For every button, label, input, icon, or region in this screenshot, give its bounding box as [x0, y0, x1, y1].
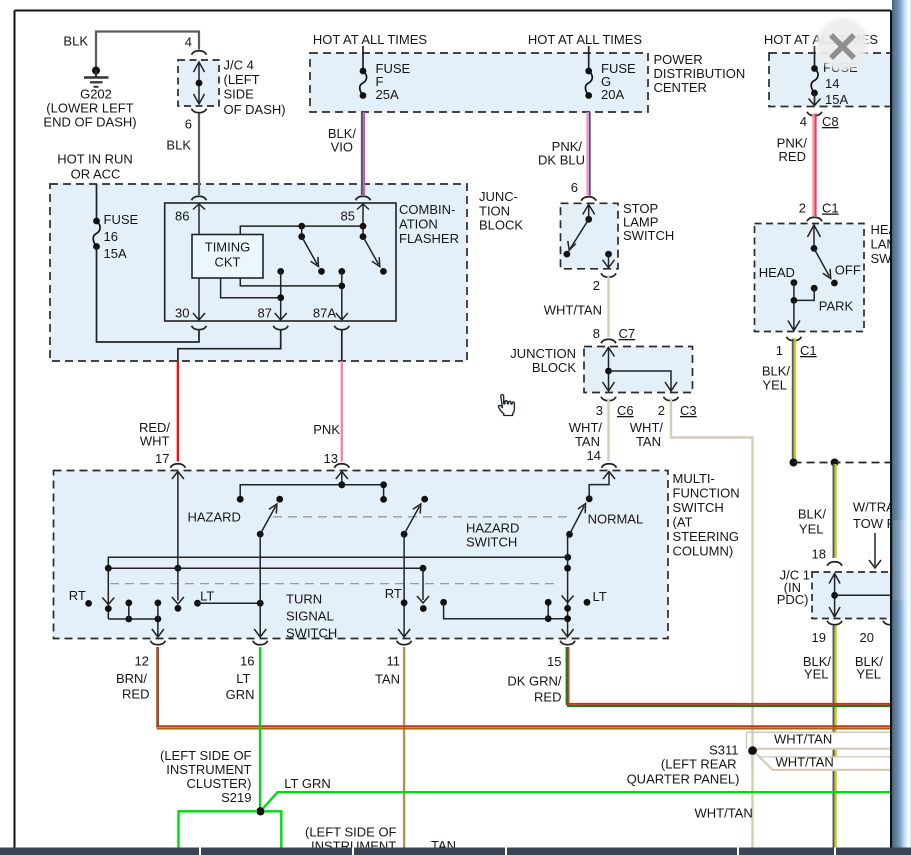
connector arc junction block pin 3 C6	[601, 397, 616, 401]
svg-text:(LEFT REAR: (LEFT REAR	[661, 757, 737, 772]
wire from HOT IN RUN feed to fuse 16	[96, 184, 98, 221]
flasher pin 86 wire and arrow	[193, 204, 205, 210]
connector arc J/C4 pin 4	[192, 51, 207, 55]
wire LT GRN S219 right branch	[264, 811, 281, 847]
svg-text:GRN: GRN	[226, 687, 255, 702]
svg-text:OF DASH): OF DASH)	[224, 102, 286, 117]
svg-text:18: 18	[812, 547, 826, 562]
connector arc below pin 87A	[334, 326, 349, 330]
wire BLK J/C4 to flasher pin 86	[198, 114, 200, 196]
headlamp switch PARK contact	[811, 285, 818, 292]
contact dot LT right	[584, 599, 591, 606]
flasher pin 85 wire and arrow	[357, 204, 369, 210]
svg-text:CLUSTER): CLUSTER)	[186, 776, 251, 791]
svg-text:TAN: TAN	[575, 434, 600, 449]
fuse F 25A	[360, 68, 367, 75]
svg-text:MULTI-: MULTI-	[673, 471, 715, 486]
normal contact	[566, 531, 573, 538]
svg-text:4: 4	[185, 35, 192, 50]
svg-text:BLOCK: BLOCK	[479, 218, 523, 233]
svg-text:J/C 4: J/C 4	[224, 58, 254, 73]
wire pin 87A to PNK	[341, 331, 343, 362]
timing ckt output wire to 87A	[240, 278, 341, 286]
right turn-signal bottom wire	[440, 599, 447, 606]
svg-text:OFF: OFF	[835, 263, 861, 278]
svg-text:C8: C8	[822, 114, 839, 129]
svg-text:HAZARD: HAZARD	[466, 521, 519, 536]
svg-text:JUNCTION: JUNCTION	[510, 346, 576, 361]
connector arc below pin 87	[273, 326, 288, 330]
wire BLK/YEL headlamp switch to node	[792, 339, 794, 462]
left turn-signal bottom wire	[108, 619, 158, 637]
connector arc MFS pin 12	[150, 641, 165, 645]
ground G202	[92, 67, 100, 75]
hazard feed wire	[240, 485, 383, 500]
splice S311	[748, 747, 756, 755]
node on top wire at left contact	[298, 223, 305, 230]
svg-text:30: 30	[175, 306, 189, 321]
flasher pin 87A wire and arrow	[338, 268, 345, 275]
svg-text:2: 2	[799, 201, 806, 216]
svg-text:13: 13	[324, 451, 338, 466]
headlamp switch input arrow	[808, 225, 821, 237]
wire PNK/DK BLU fuse G to stop lamp switch	[586, 112, 588, 196]
svg-text:TIMING: TIMING	[205, 240, 251, 255]
stop lamp switch dashed box	[561, 203, 619, 268]
svg-text:WHT/: WHT/	[569, 420, 603, 435]
svg-text:C7: C7	[619, 326, 636, 341]
left turn-signal column	[107, 568, 109, 619]
svg-text:NORMAL: NORMAL	[588, 512, 644, 527]
wire PNK flasher 87A to MFS pin 13	[341, 361, 343, 462]
bottom bar	[0, 848, 911, 855]
wire pin 87 to RED/WHT	[178, 331, 281, 362]
headlamp switch OFF contact	[814, 248, 829, 276]
wire WHT/TAN C6 to multi-function switch pin 14	[607, 399, 609, 462]
svg-text:2: 2	[658, 403, 665, 418]
svg-text:CKT: CKT	[215, 255, 241, 270]
wire LT GRN pin 16 to S219	[259, 647, 261, 808]
headlamp switch dashed box	[755, 224, 865, 332]
svg-text:86: 86	[175, 209, 189, 224]
svg-text:STEERING: STEERING	[673, 529, 739, 544]
mouse cursor	[498, 395, 514, 416]
wire BLK/YEL node to J/C1 pin 18	[833, 464, 835, 558]
connector arc below J/C4 (pin 6)	[192, 109, 207, 113]
svg-text:LT: LT	[236, 671, 250, 686]
J/C1 internal wire	[829, 574, 840, 584]
dashed wire to trailer tow package	[794, 462, 892, 464]
svg-text:TAN: TAN	[375, 672, 400, 687]
svg-text:END OF DASH): END OF DASH)	[43, 115, 136, 130]
junction block internal wire	[603, 348, 615, 357]
connector arc MFS pin 13	[334, 464, 349, 468]
svg-text:SWITCH: SWITCH	[623, 228, 674, 243]
node left bottom 1	[125, 616, 132, 623]
wire B drop column	[422, 568, 424, 600]
fuse G 20A	[585, 68, 592, 75]
wire WHT/TAN stop lamp to junction block	[607, 275, 609, 337]
wire normal to MFS pin 14	[589, 473, 609, 499]
svg-text:YEL: YEL	[856, 667, 881, 682]
svg-text:YEL: YEL	[804, 667, 829, 682]
contact dot RT left	[85, 600, 92, 607]
svg-text:TAN: TAN	[636, 434, 661, 449]
svg-text:WHT/TAN: WHT/TAN	[544, 303, 602, 318]
svg-text:15: 15	[547, 654, 561, 669]
wire BLK/VIO fuse F to flasher pin 85	[361, 112, 363, 195]
turn signal RT contact (right)	[401, 531, 408, 538]
svg-text:2: 2	[593, 278, 600, 293]
svg-text:S219: S219	[221, 790, 251, 805]
svg-text:RED: RED	[534, 690, 561, 705]
svg-text:6: 6	[185, 117, 192, 132]
svg-text:15A: 15A	[104, 246, 127, 261]
connector arc flasher pin 86	[192, 196, 207, 200]
wire BRN/RED pin 12	[156, 647, 159, 727]
fuse 14 output arrow	[814, 93, 816, 106]
svg-text:WHT/TAN: WHT/TAN	[695, 806, 753, 821]
timing circuit box	[192, 235, 263, 279]
stop lamp switch output	[605, 251, 612, 258]
node hazard feed right bottom	[380, 496, 387, 503]
node hazard feed right top	[380, 481, 387, 488]
wire LT to pin16 column	[194, 600, 201, 607]
svg-text:14: 14	[825, 76, 839, 91]
svg-text:C1: C1	[822, 201, 839, 216]
svg-text:S311: S311	[709, 743, 738, 758]
svg-text:BLOCK: BLOCK	[532, 360, 576, 375]
connector arc fuse 14 pin 4 C8	[807, 112, 822, 116]
connector arc flasher pin 85	[356, 196, 371, 200]
svg-text:LT: LT	[200, 589, 214, 604]
connector arc J/C1 pin 19	[827, 621, 842, 625]
svg-text:BLK: BLK	[166, 138, 191, 153]
wire WHT/TAN S311 branch 2 flag	[761, 757, 892, 770]
svg-text:8: 8	[593, 326, 600, 341]
svg-text:25A: 25A	[376, 87, 399, 102]
svg-text:RED: RED	[779, 149, 806, 164]
connector arc stop lamp switch pin 2	[601, 273, 616, 277]
MFS pin 13 input wire	[336, 472, 348, 480]
svg-text:DK GRN/: DK GRN/	[507, 674, 562, 689]
svg-text:HAZARD: HAZARD	[188, 510, 241, 525]
svg-text:TURN: TURN	[286, 591, 322, 606]
svg-text:FLASHER: FLASHER	[399, 231, 459, 246]
connector arc MFS pin 15	[560, 641, 575, 645]
flasher pin 87 wire and arrow	[277, 268, 284, 275]
connector arc J/C1 pin 20	[883, 621, 898, 625]
connector arc MFS pin 16	[253, 641, 268, 645]
svg-text:87A: 87A	[313, 306, 336, 321]
svg-text:(LEFT SIDE OF: (LEFT SIDE OF	[305, 825, 397, 840]
svg-text:4: 4	[800, 114, 807, 129]
svg-text:G202: G202	[80, 87, 112, 102]
arrow to J/C1 (trailer tow)	[874, 533, 876, 566]
connector arc stop lamp switch pin 6	[581, 197, 596, 201]
svg-text:ATION: ATION	[399, 217, 438, 232]
svg-text:15A: 15A	[825, 92, 848, 107]
svg-text:WHT/TAN: WHT/TAN	[774, 732, 832, 747]
MFS internal bus wire B	[108, 567, 423, 569]
svg-text:POWER: POWER	[654, 52, 703, 67]
wire BLK from G202 to J/C4	[96, 32, 199, 69]
svg-text:RT: RT	[69, 588, 86, 603]
wire LT GRN S219 to right	[263, 792, 891, 808]
wire TAN pin 11 down	[403, 647, 405, 848]
wire LT GRN S219 left branch	[179, 811, 258, 847]
svg-text:RT: RT	[385, 586, 402, 601]
stop lamp switch contact	[570, 219, 588, 248]
wire DK GRN/RED pin 15	[566, 647, 569, 705]
svg-text:16: 16	[104, 229, 118, 244]
flasher left contact	[301, 226, 303, 237]
close button	[814, 16, 872, 74]
connector arc below pin 30	[192, 326, 207, 330]
svg-text:FUNCTION: FUNCTION	[673, 486, 740, 501]
svg-text:SWITCH: SWITCH	[286, 625, 337, 640]
node left bottom 2	[155, 616, 162, 623]
svg-text:PNK: PNK	[313, 422, 340, 437]
svg-text:WHT/: WHT/	[630, 420, 664, 435]
svg-text:COLUMN): COLUMN)	[673, 544, 734, 559]
svg-text:DISTRIBUTION: DISTRIBUTION	[654, 66, 746, 81]
junction block (left, combination flasher housing) dashed box	[50, 184, 467, 361]
stop lamp switch input arrow	[583, 205, 595, 215]
svg-text:RED: RED	[122, 687, 149, 702]
svg-text:12: 12	[135, 654, 149, 669]
MFS pin 11 column	[403, 534, 405, 637]
svg-text:(LOWER LEFT: (LOWER LEFT	[46, 101, 133, 116]
svg-text:14: 14	[587, 448, 601, 463]
svg-text:1: 1	[776, 343, 783, 358]
svg-text:C6: C6	[617, 403, 634, 418]
MFS pin 17 input wire	[172, 472, 184, 480]
connector arc junction block pin 8 C7	[601, 339, 616, 343]
svg-text:SIGNAL: SIGNAL	[286, 608, 334, 623]
multi-function switch dashed box	[54, 471, 669, 639]
J/C 4 internal wire with arrows and splice dot	[198, 63, 200, 103]
junction block (middle) dashed box	[584, 347, 693, 393]
wire fuse16 to flasher pin 30	[97, 247, 200, 343]
svg-text:PARK: PARK	[819, 299, 854, 314]
connector arc MFS pin 17	[170, 464, 185, 468]
svg-text:DK BLU: DK BLU	[538, 153, 585, 168]
svg-text:YEL: YEL	[799, 522, 824, 537]
connector arc headlamp switch pin 1 C1	[786, 337, 801, 341]
wire WHT/TAN through S311	[751, 730, 753, 772]
wire stub into fuse F	[362, 46, 364, 71]
connector arc headlamp switch pin 2 C1	[807, 217, 822, 221]
svg-text:YEL: YEL	[762, 378, 787, 393]
combination flasher inner solid box	[165, 203, 396, 321]
svg-text:HOT AT ALL TIMES: HOT AT ALL TIMES	[528, 32, 642, 47]
wire PNK/RED fuse 14 to headlamp switch	[812, 114, 814, 217]
headlamp switch HEAD contact	[791, 279, 798, 286]
svg-text:BRN/: BRN/	[116, 671, 147, 686]
wire WHT/TAN C3 to splice S311	[671, 399, 753, 751]
svg-text:3: 3	[596, 403, 603, 418]
svg-text:(LEFT SIDE OF: (LEFT SIDE OF	[160, 748, 252, 763]
svg-text:BLK: BLK	[63, 34, 88, 49]
MFS pin 16 column	[259, 534, 261, 637]
node hazard feed pin13	[338, 481, 345, 488]
wire WHT/TAN S311 down	[751, 751, 753, 848]
svg-text:LT: LT	[593, 589, 607, 604]
wire stub into fuse 14	[814, 46, 816, 69]
svg-text:85: 85	[341, 209, 355, 224]
svg-text:20A: 20A	[601, 87, 624, 102]
connector arc MFS pin 14	[602, 464, 617, 468]
fuse 14 15A	[811, 65, 818, 72]
svg-text:INSTRUMENT: INSTRUMENT	[166, 762, 251, 777]
svg-text:BLK/: BLK/	[762, 364, 791, 379]
right scrollbar band	[892, 0, 911, 855]
svg-text:6: 6	[571, 180, 578, 195]
svg-text:FUSE: FUSE	[104, 212, 139, 227]
MFS pin 15 column	[567, 534, 569, 637]
wire BLK/YEL J/C1 pin 19 down	[833, 626, 835, 848]
svg-text:19: 19	[812, 630, 826, 645]
fuse 16 15A	[93, 218, 100, 225]
svg-text:TION: TION	[479, 204, 510, 219]
power distribution center dashed box (fuses F and G)	[310, 53, 648, 112]
node right bottom 1	[545, 615, 552, 622]
power distribution center dashed box (fuse 14)	[769, 53, 895, 107]
flasher right contact	[360, 233, 367, 240]
svg-text:SWITCH: SWITCH	[466, 535, 517, 550]
wire stub into fuse G	[588, 46, 590, 71]
svg-text:HOT AT ALL TIMES: HOT AT ALL TIMES	[313, 32, 427, 47]
MFS internal bus wire A	[108, 557, 568, 568]
svg-text:BLK/: BLK/	[798, 507, 827, 522]
svg-text:QUARTER PANEL): QUARTER PANEL)	[627, 772, 740, 787]
svg-text:87: 87	[258, 306, 272, 321]
node splice on dashed branch	[790, 459, 798, 467]
svg-text:17: 17	[155, 451, 169, 466]
node pin85 top wire junction	[360, 223, 367, 230]
svg-text:(LEFT: (LEFT	[224, 72, 260, 87]
svg-text:CENTER: CENTER	[654, 80, 707, 95]
svg-text:(AT: (AT	[673, 515, 693, 530]
svg-text:HOT IN RUN: HOT IN RUN	[57, 152, 133, 167]
J/C 1 dashed box	[812, 572, 895, 619]
timing ckt output wire to 87	[221, 278, 281, 298]
svg-text:COMBIN-: COMBIN-	[399, 202, 455, 217]
svg-text:11: 11	[387, 654, 401, 669]
hazard switch contact	[257, 531, 264, 538]
page frame border	[15, 10, 892, 12]
MFS internal dashed linkage lower	[110, 583, 556, 585]
connector arc MFS pin 11	[397, 641, 412, 645]
svg-text:C1: C1	[800, 343, 817, 358]
svg-text:20: 20	[860, 630, 874, 645]
svg-text:PDC): PDC)	[777, 592, 809, 607]
svg-text:WHT: WHT	[140, 434, 170, 449]
headlamp switch output	[791, 297, 798, 304]
connector arc J/C1 pin 18	[827, 562, 842, 566]
svg-text:OR ACC: OR ACC	[71, 167, 121, 182]
svg-text:LT GRN: LT GRN	[284, 776, 330, 791]
wire WHT/TAN S311 branch 1 flag	[747, 732, 892, 748]
connector arc junction block pin 2 C3	[664, 397, 679, 401]
svg-text:VIO: VIO	[331, 140, 353, 155]
svg-text:HEAD: HEAD	[759, 265, 795, 280]
MFS internal dashed linkage upper	[273, 516, 568, 518]
svg-text:SIDE: SIDE	[224, 87, 255, 102]
flasher pin 30 wire and arrow	[198, 278, 200, 320]
svg-text:SWITCH: SWITCH	[673, 500, 724, 515]
splice S219	[256, 807, 264, 815]
flasher top internal wire	[240, 226, 363, 234]
svg-text:16: 16	[240, 654, 254, 669]
node hazard feed left	[237, 496, 244, 503]
J/C 4 dashed box	[178, 60, 219, 106]
svg-text:C3: C3	[680, 403, 697, 418]
svg-text:JUNC-: JUNC-	[479, 189, 518, 204]
wire RED/WHT flasher 87 to MFS pin 17	[177, 361, 179, 462]
svg-text:WHT/TAN: WHT/TAN	[776, 755, 834, 770]
